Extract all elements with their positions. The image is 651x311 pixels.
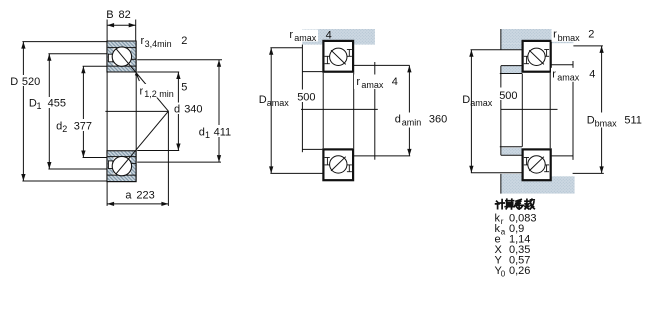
svg-text:D: D [10, 76, 18, 88]
right bottom section [523, 149, 551, 180]
svg-text:340: 340 [184, 103, 202, 115]
axis line right [501, 108, 558, 110]
label r1,2 min 5 [138, 84, 175, 98]
计 [496, 200, 505, 209]
bore line right [353, 73, 355, 149]
dimension line D1 [48, 54, 50, 169]
svg-text:4: 4 [326, 30, 332, 42]
arrows middle diagram [269, 48, 412, 174]
ext line D1 top [48, 53, 107, 55]
Damax arrows [269, 48, 273, 55]
ext line d bottom [137, 150, 179, 152]
svg-text:r: r [289, 29, 293, 41]
svg-text:223: 223 [136, 189, 154, 201]
label damin 360 [393, 113, 448, 128]
svg-text:a: a [125, 189, 132, 201]
housing wall P2 [501, 66, 521, 73]
a arrows [107, 202, 114, 206]
connector right bottom [551, 155, 573, 157]
label r amax top [288, 30, 318, 42]
svg-text:511: 511 [624, 115, 642, 127]
shoulder face line [374, 62, 376, 160]
P2 top edge [501, 65, 522, 67]
bore line left between sections [106, 72, 108, 151]
label d2 377 [73, 119, 93, 131]
svg-text:d: d [174, 103, 180, 115]
ext line d2 top [83, 65, 107, 67]
label r amax right [551, 68, 597, 82]
bore line right [549, 73, 551, 149]
svg-text:4: 4 [589, 68, 595, 80]
svg-text:411: 411 [214, 126, 232, 138]
housing top cap [501, 29, 574, 43]
ext line D bottom [22, 180, 107, 182]
labels left diagram [10, 9, 235, 201]
top bearing section (left diagram) [107, 41, 136, 72]
svg-text:455: 455 [48, 98, 66, 110]
svg-text:bmax: bmax [558, 33, 581, 43]
系 [515, 199, 524, 209]
svg-text:r: r [553, 29, 557, 41]
svg-text:1,2 min: 1,2 min [144, 89, 174, 99]
svg-text:D: D [587, 115, 595, 127]
ext line d top [137, 71, 179, 73]
svg-text:2: 2 [181, 35, 187, 47]
wall left edge upper [500, 29, 502, 50]
svg-text:d: d [199, 126, 205, 138]
d2 arrows [81, 66, 85, 73]
P2 bottom edge / section bottom ext [500, 73, 522, 75]
dimension line Damax right [470, 50, 472, 173]
shoulder face line right [572, 61, 574, 160]
housing wall P3 [501, 148, 521, 155]
axis line [105, 110, 168, 112]
pressure centre vertical [167, 111, 169, 206]
extension line B left [106, 20, 108, 41]
middle bottom section [323, 149, 353, 180]
label r amax middle [354, 75, 398, 90]
bottom bearing section (left diagram) [107, 151, 136, 182]
stub to bottom section [302, 148, 322, 150]
B arrows [107, 23, 114, 27]
svg-text:bmax: bmax [595, 119, 618, 129]
housing wall P1 [501, 43, 523, 49]
dimension line Damax [270, 48, 272, 174]
svg-text:r: r [501, 217, 504, 226]
svg-text:1: 1 [205, 130, 210, 140]
bore line right between sections [135, 72, 137, 151]
svg-text:500: 500 [499, 90, 517, 102]
Dbmax bottom connector [573, 172, 604, 174]
svg-text:B: B [106, 9, 113, 21]
d arrows [176, 72, 180, 79]
dimension line B [107, 24, 136, 26]
P3 top edge / section top ext [500, 146, 522, 148]
svg-text:amax: amax [557, 73, 580, 83]
svg-text:3,4min: 3,4min [145, 39, 172, 49]
Dbmax arrows [599, 46, 603, 53]
D arrows [21, 42, 25, 49]
label D1 455 [47, 97, 67, 108]
connector damin bottom [352, 155, 410, 157]
数 [525, 199, 534, 209]
svg-text:500: 500 [297, 92, 315, 104]
svg-text:2: 2 [62, 124, 67, 134]
Damax bottom connector [471, 172, 522, 174]
middle top section [323, 41, 353, 72]
connector Damax bottom [270, 172, 323, 174]
svg-text:82: 82 [119, 9, 131, 21]
算 [505, 199, 514, 209]
svg-text:amax: amax [267, 98, 290, 108]
svg-text:1: 1 [37, 101, 42, 111]
face extension to a-dim [106, 182, 108, 206]
P1 bottom / Damax top connector [471, 49, 523, 51]
labels right diagram [462, 28, 647, 128]
dimension line d [177, 72, 179, 151]
svg-text:amax: amax [470, 98, 493, 108]
svg-text:r: r [552, 68, 556, 80]
svg-text:D: D [259, 94, 267, 106]
svg-text:a: a [501, 228, 506, 237]
contact line lower [116, 111, 168, 174]
label r bmax [552, 29, 581, 42]
shaft abutment bar [302, 29, 375, 45]
svg-text:5: 5 [181, 81, 187, 93]
dimension line a [107, 203, 168, 205]
svg-text:d: d [395, 114, 401, 126]
label d1 411 [198, 125, 236, 137]
shaft line [301, 45, 303, 153]
label Dbmax 511 [586, 113, 648, 128]
svg-text:0,26: 0,26 [509, 265, 530, 277]
r12 leader [137, 74, 140, 81]
extension line B right [135, 20, 137, 41]
connector right top [551, 64, 573, 66]
svg-text:520: 520 [22, 76, 40, 88]
right top section [523, 41, 551, 72]
svg-text:0: 0 [501, 270, 506, 279]
rbmax connector [573, 45, 603, 47]
svg-text:4: 4 [392, 76, 398, 88]
svg-text:360: 360 [429, 114, 447, 126]
ext line D1 bottom [48, 168, 107, 170]
dimension line damin [408, 65, 410, 155]
axis line [301, 108, 378, 110]
connector damin top [352, 64, 410, 66]
stub to top section [302, 71, 322, 73]
dimension line D [22, 42, 24, 181]
arrows right diagram [469, 46, 604, 173]
D1 arrows [47, 54, 51, 61]
Damax right arrows [469, 50, 473, 57]
arrows left diagram [21, 23, 221, 206]
dimension line Dbmax [601, 46, 603, 173]
connector Damax top [270, 47, 302, 49]
dimension line d1 [218, 60, 220, 162]
contact line upper [116, 49, 168, 111]
svg-text:r: r [356, 76, 360, 88]
label d 340 [173, 103, 204, 115]
svg-text:2: 2 [588, 28, 594, 40]
d1 arrows [217, 60, 221, 67]
labels middle diagram [259, 29, 448, 128]
ext line d2 bottom [83, 157, 107, 159]
housing wall P4 [501, 174, 523, 194]
svg-text:amin: amin [402, 118, 422, 128]
wall left edge lower [500, 174, 502, 194]
svg-text:r: r [140, 86, 144, 98]
damin arrows [407, 65, 411, 72]
ext line D top [22, 41, 107, 43]
header 计算系数 (drawn strokes) [496, 199, 535, 209]
bore line left [521, 74, 523, 147]
svg-text:amax: amax [361, 80, 384, 90]
P3 bottom edge [501, 154, 522, 156]
ext line d1 bottom [137, 161, 221, 163]
wall left edge middle [500, 66, 502, 156]
label D 520 [21, 75, 42, 86]
svg-text:D: D [462, 94, 470, 106]
bore line left [322, 73, 324, 149]
svg-text:377: 377 [74, 121, 92, 133]
ext line d1 top [137, 59, 222, 61]
housing bottom cap [522, 176, 574, 193]
svg-text:amax: amax [294, 33, 317, 43]
dimension line d2 [82, 66, 84, 157]
